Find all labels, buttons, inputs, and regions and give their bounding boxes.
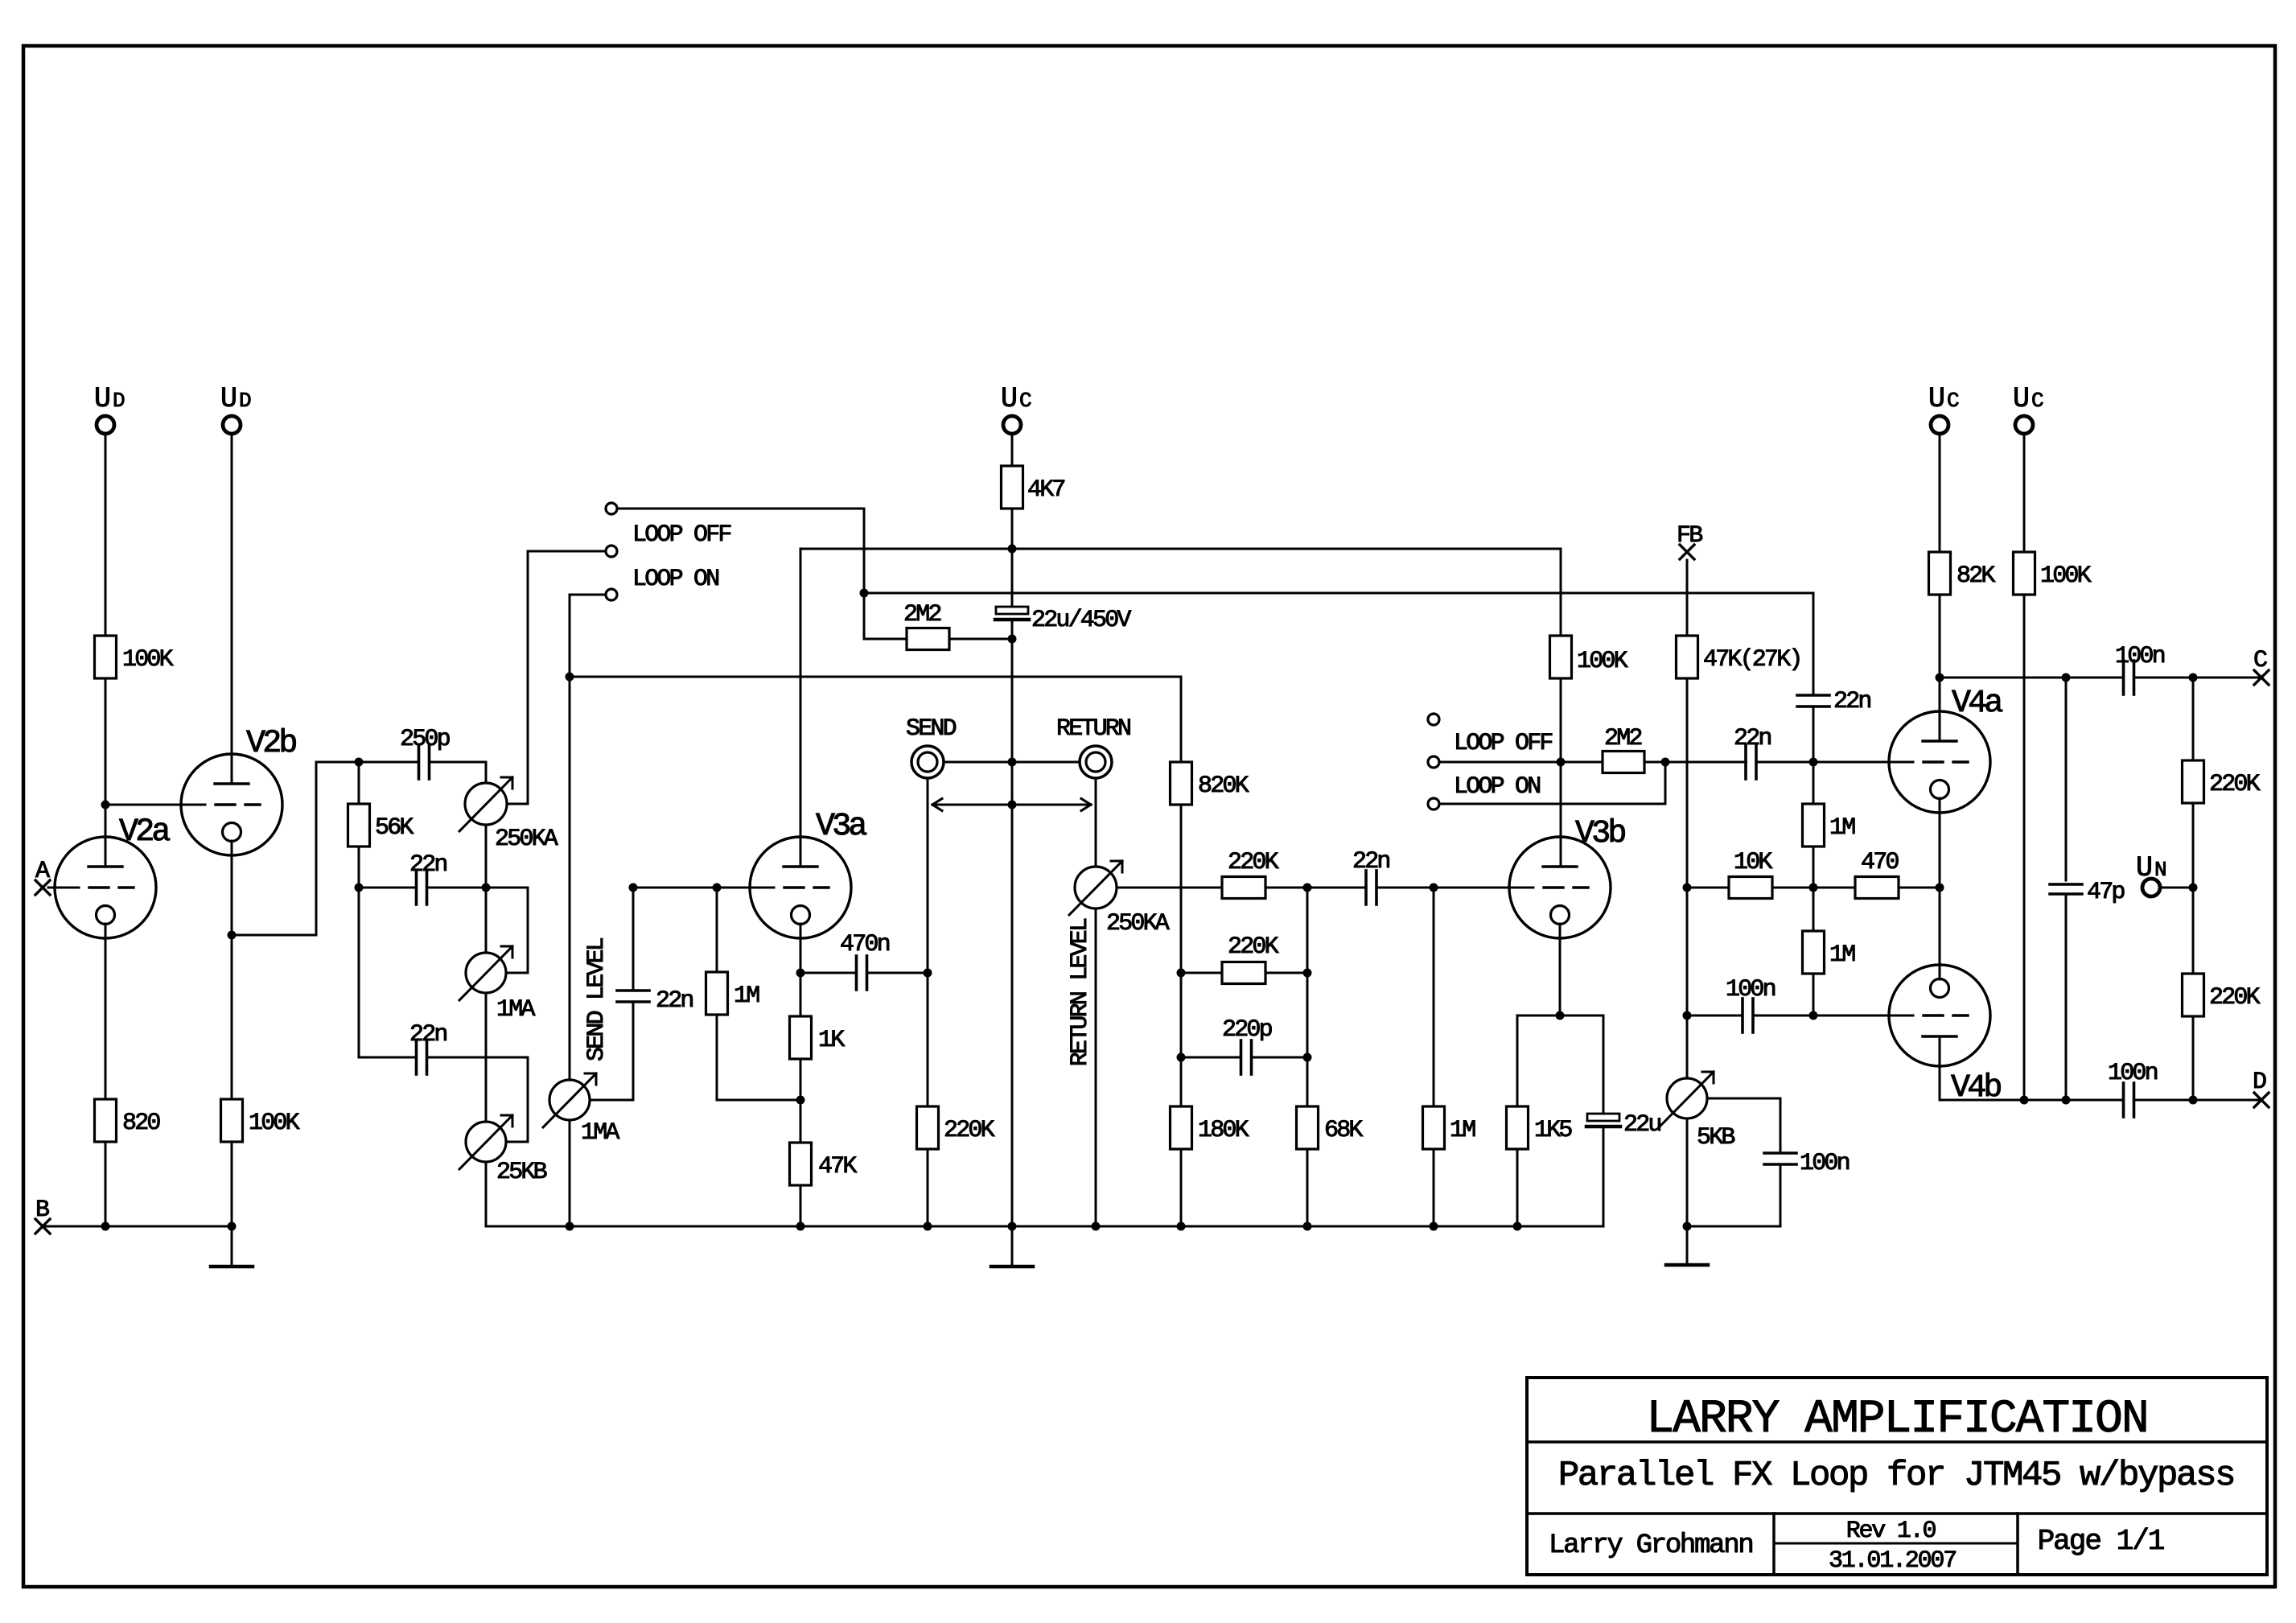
wire 5KB wiper bracket	[1707, 1098, 1780, 1153]
wire LOOP ON contact riser	[570, 595, 606, 1080]
svg-text:820: 820	[122, 1110, 160, 1137]
svg-text:25KB: 25KB	[496, 1159, 547, 1186]
switch contact (loop on pole 1)	[606, 589, 617, 600]
svg-text:C: C	[1947, 389, 1959, 413]
wire 100n left	[1687, 1015, 1743, 1017]
revision Rev 1.0	[1846, 1518, 1936, 1545]
capacitor 100n (output D)	[2108, 1060, 2158, 1117]
wire plate bus corner to 100K	[1560, 549, 1562, 636]
svg-text:250p: 250p	[400, 726, 450, 753]
wire A to V2a grid	[48, 887, 79, 889]
wire V4b plate down	[1939, 1036, 1941, 1100]
node pot bottom on ground bus	[1092, 1222, 1101, 1231]
svg-text:82K: 82K	[1957, 562, 1995, 590]
capacitor 22u (cathode bypass)	[1586, 1111, 1660, 1139]
ground symbol (center rail)	[991, 1226, 1033, 1267]
wire 1M down	[1813, 847, 1815, 888]
wire UC to 4K7	[1011, 434, 1014, 466]
resistor 68K	[1297, 1106, 1364, 1149]
capacitor 47p (HF shunt)	[2050, 678, 2124, 906]
node V2b cathode output tap	[228, 931, 237, 940]
resistor 1M (V3b grid leak)	[1423, 888, 1476, 1149]
subtitle Parallel FX Loop for JTM45 w/bypass	[1558, 1456, 2234, 1496]
resistor 220K (divider upper)	[2183, 678, 2261, 803]
resistor 220K (divider lower)	[2183, 888, 2261, 1016]
resistor 220K (feedback)	[1222, 933, 1279, 984]
node 220K tap	[2189, 674, 2198, 682]
node 5KB ground	[1683, 1222, 1692, 1231]
svg-text:1K5: 1K5	[1534, 1117, 1572, 1144]
date 31.01.2007	[1829, 1547, 1956, 1575]
tube V4a	[1889, 686, 2002, 813]
node 2M2 / 22n junction	[1661, 758, 1670, 767]
label LOOP OFF	[632, 521, 730, 549]
label LOOP ON	[632, 566, 718, 593]
wire 220K down to D row	[2192, 1016, 2195, 1100]
resistor 820K (bypass mix)	[1171, 677, 1249, 805]
wire 22n right lead	[427, 887, 487, 889]
wire UD2 down to V2b plate	[231, 434, 233, 784]
wire V2a cathode down	[105, 924, 107, 1099]
resistor 1M (V4b grid leak)	[1803, 888, 1856, 974]
wire UD1 down	[105, 434, 107, 636]
wire 1M down	[1813, 974, 1815, 1015]
wire filter cap to ground rail	[1011, 620, 1014, 1226]
node 220K right	[1303, 969, 1312, 978]
wire 47K down	[1686, 678, 1689, 1078]
node FB terminal	[1677, 522, 1702, 559]
capacitor 22n (send level to V3a grid)	[617, 987, 693, 1015]
label RETURN LEVEL	[1067, 918, 1094, 1066]
node 10K junction	[1683, 884, 1692, 892]
wire 68K to ground bus	[1306, 1149, 1309, 1226]
node 220K on D row	[2189, 1096, 2198, 1105]
node 820 bottom on B bus	[101, 1222, 110, 1231]
wire 25KB wiper bracket	[506, 1057, 528, 1142]
svg-text:5KB: 5KB	[1697, 1124, 1734, 1151]
resistor 220K (send load)	[917, 1106, 995, 1149]
wire 220p left	[1181, 1057, 1241, 1059]
svg-text:100K: 100K	[2040, 562, 2092, 590]
node V4a grid junction	[1809, 758, 1818, 767]
wire 47K to ground bus	[800, 1185, 802, 1226]
svg-text:220K: 220K	[2209, 771, 2261, 798]
node 1M on bus	[1430, 1222, 1438, 1231]
title block row divider 2	[1527, 1512, 2267, 1515]
terminal UC (center, supply)	[1001, 383, 1031, 434]
resistor 56K	[348, 762, 414, 847]
wire V3a plate to supply row	[800, 549, 802, 867]
wire 47p down to D row	[2065, 894, 2068, 1100]
svg-text:1MA: 1MA	[496, 996, 535, 1024]
wire V4a cathode to V4b cathode	[1939, 798, 1941, 979]
capacitor 22n (treble stack)	[409, 851, 446, 904]
capacitor 470n (send coupling)	[840, 931, 890, 990]
svg-text:N: N	[2154, 858, 2166, 882]
wire 220K down	[2192, 803, 2195, 888]
resistor 47K(27K) (feedback)	[1677, 636, 1801, 678]
node SEND tip / 470n	[924, 969, 932, 978]
svg-text:22u: 22u	[1623, 1111, 1660, 1139]
svg-text:22n: 22n	[1833, 688, 1870, 715]
tube V2a	[55, 814, 170, 938]
svg-text:220K: 220K	[2209, 984, 2261, 1011]
wire UN to divider	[2160, 887, 2194, 889]
potentiometer 5KB (presence)	[1660, 1072, 1734, 1151]
svg-text:Larry Grohmann: Larry Grohmann	[1549, 1530, 1752, 1561]
wire 820 to B bus	[105, 1142, 107, 1226]
svg-text:C: C	[2031, 389, 2043, 413]
svg-text:220K: 220K	[1228, 933, 1279, 961]
wire 10K right lead	[1772, 887, 1813, 889]
svg-text:V4a: V4a	[1952, 686, 2002, 722]
node center rail on bus	[1008, 1222, 1017, 1231]
resistor 100K (V2b cathode load)	[221, 1099, 300, 1142]
wire output C row	[1940, 677, 2124, 679]
wire 10K left lead	[1687, 887, 1729, 889]
wire cathode network top bar	[1517, 1015, 1603, 1017]
wire 1MA top lead	[485, 888, 488, 953]
resistor 1M (V4a grid leak)	[1803, 762, 1856, 847]
resistor 220K (divider top)	[1222, 849, 1279, 899]
node V3b cathode	[1556, 1011, 1565, 1020]
node 250p/56K junction	[355, 758, 364, 767]
svg-text:220K: 220K	[944, 1117, 995, 1144]
label LOOP ON	[1454, 773, 1540, 801]
capacitor 22n (to V4a grid)	[1734, 725, 1771, 779]
capacitor 22u/450V (supply filter)	[995, 607, 1131, 634]
node V3b grid leak tap	[1430, 884, 1438, 892]
node pot 1MA top junction	[482, 884, 491, 892]
wire V2b cathode to tone stack	[232, 762, 359, 935]
wire 250KA bottom lead	[485, 825, 488, 888]
svg-text:100n: 100n	[1800, 1150, 1850, 1177]
wire 1M down to cathode row	[717, 1015, 800, 1100]
wire SEND tip down	[927, 778, 929, 1106]
capacitor 250p	[400, 726, 450, 779]
title block column divider 2	[2016, 1514, 2019, 1575]
wire to 22n	[1665, 761, 1747, 764]
node 180K on bus	[1177, 1222, 1186, 1231]
node V4b grid junction	[1809, 1011, 1818, 1020]
wire 100n right	[1753, 1015, 1813, 1017]
resistor 820 (V2a cathode)	[95, 1099, 161, 1142]
wire UC down	[1939, 434, 1941, 552]
potentiometer 1MA (bass)	[459, 946, 535, 1024]
node 47p on D row	[2062, 1096, 2071, 1105]
svg-text:100n: 100n	[2108, 1060, 2158, 1087]
jack RETURN	[1080, 746, 1112, 778]
capacitor 22n (bass stack)	[409, 1021, 446, 1074]
svg-text:180K: 180K	[1198, 1117, 1249, 1144]
wire 1K5 leg	[1516, 1015, 1519, 1106]
wire 470n right	[867, 972, 928, 974]
wire 820K down	[1180, 805, 1183, 1106]
svg-text:22u/450V: 22u/450V	[1031, 607, 1131, 634]
node divider mid	[2189, 884, 2198, 892]
wire 22u leg	[1603, 1015, 1605, 1114]
wire 220K right	[1265, 887, 1307, 889]
svg-text:220K: 220K	[1228, 849, 1279, 876]
resistor 1K5 (V3b cathode)	[1507, 1106, 1573, 1149]
node 1K5 on bus	[1513, 1222, 1522, 1231]
svg-text:250KA: 250KA	[1106, 910, 1170, 937]
node 1K / 47K junction	[796, 1096, 805, 1105]
wire V3a grid row	[633, 887, 774, 889]
label LOOP OFF	[1454, 730, 1552, 757]
node A terminal	[35, 858, 50, 895]
node pot bottom on ground bus	[566, 1222, 574, 1231]
wire V3a cathode down	[800, 924, 802, 1016]
potentiometer 250KA (RETURN LEVEL)	[1069, 861, 1170, 937]
wire 100n to ground corner	[1687, 1164, 1780, 1226]
wire 220K to ground bus	[927, 1149, 929, 1226]
node V2a plate / V2b grid junction	[101, 801, 110, 809]
wire 68K column	[1306, 888, 1309, 1106]
svg-text:1MA: 1MA	[581, 1119, 619, 1147]
wire 82K to plate	[1939, 595, 1941, 741]
svg-text:68K: 68K	[1324, 1117, 1363, 1144]
svg-text:10K: 10K	[1734, 849, 1772, 876]
wire FB down	[1686, 560, 1689, 636]
wire V4b grid row	[1813, 1015, 1913, 1017]
svg-text:1K: 1K	[818, 1027, 845, 1054]
svg-text:22n: 22n	[1734, 725, 1771, 752]
jack SEND	[911, 746, 944, 778]
node V3a cathode / 470n	[796, 969, 805, 978]
wire bypass bus	[864, 592, 1813, 595]
wire loop-on contact bracket	[1439, 762, 1665, 804]
wire 22n right lead	[427, 1057, 529, 1059]
svg-text:2M2: 2M2	[903, 601, 940, 628]
terminal UD (right, supply for V2b)	[220, 383, 251, 434]
node plate bus / 4K7	[1008, 545, 1017, 554]
wire send bus (LOOP ON row)	[570, 676, 1181, 678]
svg-text:U: U	[2136, 852, 2151, 884]
resistor 100K (V3b plate load)	[1550, 636, 1628, 678]
wire V2b cathode down	[231, 841, 233, 1099]
node 100n junction	[1683, 1011, 1692, 1020]
ground symbol (B bus)	[211, 1226, 253, 1267]
terminal UC (V4a supply)	[1928, 383, 1959, 434]
svg-text:820K: 820K	[1198, 772, 1249, 800]
svg-text:U: U	[2013, 383, 2028, 415]
wire 22n to V4a grid node	[1813, 706, 1815, 762]
title LARRY AMPLIFICATION	[1646, 1394, 2147, 1446]
wire 5KB bottom to ground	[1686, 1118, 1689, 1265]
svg-text:U: U	[94, 383, 109, 415]
author Larry Grohmann	[1549, 1530, 1752, 1561]
wire bypass bus corner down	[1813, 593, 1815, 695]
svg-text:LOOP OFF: LOOP OFF	[1454, 730, 1552, 757]
node 100K on D row	[2020, 1096, 2029, 1105]
capacitor 22n (to V3b grid)	[1352, 848, 1389, 904]
node V3b plate / 2M2 row	[1557, 758, 1566, 767]
svg-text:22n: 22n	[409, 851, 446, 879]
node divider mid top	[1303, 884, 1312, 892]
wire 100K to B bus	[231, 1142, 233, 1226]
title block frame	[1527, 1378, 2267, 1575]
svg-text:U: U	[1928, 383, 1944, 415]
wire SEND LEVEL pot bottom to bus	[569, 1120, 571, 1226]
wire 100K to V3b plate	[1560, 678, 1562, 867]
wire 25KB bottom to ground bus	[485, 1162, 488, 1226]
svg-text:SEND: SEND	[906, 715, 957, 743]
wire 22u to ground bus	[1603, 1127, 1605, 1226]
wire 470 left lead	[1813, 887, 1855, 889]
svg-text:22n: 22n	[656, 987, 693, 1015]
svg-text:V3a: V3a	[816, 809, 866, 845]
wire SEND sleeve to ground rail	[944, 761, 1012, 764]
wire pot output	[1117, 887, 1222, 889]
svg-text:Parallel FX Loop for JTM45 w/b: Parallel FX Loop for JTM45 w/bypass	[1558, 1456, 2234, 1496]
svg-text:1M: 1M	[1450, 1117, 1475, 1144]
wire 100K to V4b plate row	[2023, 595, 2026, 1100]
node sleeve ground	[1008, 758, 1017, 767]
wire 250p to 250KA pot	[430, 761, 487, 764]
node 100K bottom on B bus	[228, 1222, 237, 1231]
node riser / bypass bus	[860, 589, 869, 598]
title block middle split	[1774, 1543, 2018, 1545]
terminal UC (V4b supply)	[2013, 383, 2043, 434]
node D terminal	[2253, 1069, 2269, 1107]
resistor 4K7 (supply dropper)	[1002, 466, 1065, 509]
svg-text:RETURN: RETURN	[1056, 715, 1130, 743]
wire plate bus	[800, 548, 1561, 550]
node V3a grid / 22n	[629, 884, 638, 892]
wire SEND LEVEL wiper bracket	[590, 1002, 633, 1100]
node 56K / 22n junction	[355, 884, 364, 892]
wire 1K5 to ground bus	[1516, 1149, 1519, 1226]
wire 22n up to V3a grid	[632, 888, 635, 991]
wire UC down	[2023, 434, 2026, 552]
wire 1MA to 25KB	[485, 993, 488, 1122]
wire 2M2 right	[1644, 761, 1665, 764]
potentiometer 25KB (mid)	[459, 1115, 547, 1186]
terminal UN (feedback return)	[2136, 852, 2166, 896]
resistor 10K (tail)	[1729, 849, 1772, 899]
node C terminal	[2253, 647, 2269, 685]
switch contact (pole 2 top)	[1428, 714, 1439, 725]
wire output D row	[1940, 1099, 2124, 1102]
wire V3b grid row	[1434, 887, 1533, 889]
svg-text:U: U	[1001, 383, 1016, 415]
jack normalling contact arrows	[932, 799, 1091, 811]
wire junction to 250p	[359, 761, 419, 764]
wire 100n to D	[2134, 1099, 2262, 1102]
svg-text:31.01.2007: 31.01.2007	[1829, 1547, 1956, 1575]
svg-text:V2b: V2b	[246, 726, 296, 762]
svg-text:SEND LEVEL: SEND LEVEL	[583, 937, 611, 1061]
wire 4K7 down	[1011, 509, 1014, 607]
node 68K on bus	[1303, 1222, 1312, 1231]
wire 220K right	[1265, 972, 1307, 974]
potentiometer 1MA (SEND LEVEL)	[543, 1073, 619, 1147]
wire pot top lead	[485, 762, 488, 783]
resistor 180K	[1171, 1106, 1249, 1149]
ground symbol (5KB)	[1666, 1263, 1708, 1267]
capacitor 220p	[1222, 1016, 1272, 1074]
wire V3b cathode down	[1559, 924, 1562, 1015]
tube V2b	[181, 726, 296, 855]
capacitor 100n (output C)	[2115, 643, 2165, 694]
svg-text:100n: 100n	[2115, 643, 2165, 670]
node divider center	[1809, 884, 1818, 892]
svg-text:LARRY AMPLIFICATION: LARRY AMPLIFICATION	[1646, 1394, 2147, 1446]
terminal UD (left, supply for V2a)	[94, 383, 125, 434]
wire RETURN LEVEL bottom to ground bus	[1095, 908, 1097, 1226]
resistor 1K (V3a cathode)	[790, 1016, 846, 1059]
resistor 470 (cathode bias)	[1855, 849, 1899, 899]
tube V3b	[1509, 816, 1625, 938]
svg-text:RETURN LEVEL: RETURN LEVEL	[1067, 918, 1094, 1066]
wire 220p right	[1252, 1057, 1308, 1059]
wire 100n to C	[2134, 677, 2262, 679]
svg-text:47K(27K): 47K(27K)	[1703, 646, 1801, 674]
wire B bus	[43, 1225, 232, 1228]
wire 56K down	[358, 847, 360, 1057]
wire 470 right lead	[1899, 887, 1940, 889]
svg-text:LOOP OFF: LOOP OFF	[632, 521, 730, 549]
svg-text:D: D	[113, 389, 125, 413]
svg-text:47p: 47p	[2087, 879, 2124, 906]
node B terminal	[35, 1197, 50, 1234]
svg-text:1M: 1M	[734, 982, 759, 1010]
svg-text:D: D	[239, 389, 251, 413]
svg-text:100K: 100K	[122, 646, 174, 674]
label SEND	[906, 715, 957, 743]
svg-text:100K: 100K	[1577, 648, 1628, 675]
wire 22n right	[1376, 887, 1434, 889]
tube V3a	[750, 809, 866, 938]
label RETURN	[1056, 715, 1130, 743]
svg-text:V2a: V2a	[119, 814, 170, 851]
wire 100K to V2a plate	[105, 678, 107, 867]
svg-text:2M2: 2M2	[1604, 725, 1641, 752]
svg-text:56K: 56K	[375, 814, 414, 842]
wire 1MA wiper bracket	[486, 888, 528, 973]
svg-text:47K: 47K	[818, 1153, 857, 1180]
svg-text:22n: 22n	[1352, 848, 1389, 875]
wire 2M2 to ground rail	[949, 638, 1012, 641]
wire 22n right	[1757, 761, 1914, 764]
svg-text:Page 1/1: Page 1/1	[2038, 1525, 2164, 1558]
node V4 cathode junction	[1936, 884, 1944, 892]
svg-text:V3b: V3b	[1575, 816, 1625, 852]
svg-text:LOOP ON: LOOP ON	[632, 566, 718, 593]
node 220K on ground bus	[924, 1222, 932, 1231]
resistor 82K (V4a plate)	[1929, 552, 1996, 595]
svg-text:100K: 100K	[249, 1110, 300, 1137]
resistor 2M2 (bypass grid leak)	[903, 601, 949, 650]
node 2M2 right	[1008, 635, 1017, 644]
resistor 100K (V2a plate load)	[95, 636, 174, 678]
tube V4b (inverted)	[1889, 965, 2001, 1106]
wire 22n left lead	[359, 1057, 417, 1059]
node riser on send bus	[566, 673, 574, 682]
svg-text:470n: 470n	[840, 931, 890, 958]
node 220p right	[1303, 1053, 1312, 1062]
svg-text:22n: 22n	[409, 1021, 446, 1048]
wire 1K to 47K	[800, 1059, 802, 1143]
resistor 47K	[790, 1143, 858, 1185]
label SEND LEVEL	[583, 937, 611, 1061]
title block row divider 1	[1527, 1440, 2267, 1444]
wire RETURN sleeve to ground rail	[1012, 761, 1080, 764]
title block column divider 1	[1772, 1514, 1775, 1575]
wire 220K left	[1181, 972, 1222, 974]
node 820K / 220K row	[1177, 969, 1186, 978]
